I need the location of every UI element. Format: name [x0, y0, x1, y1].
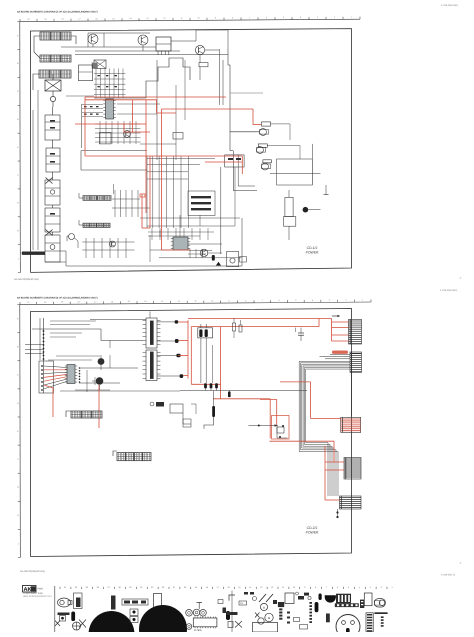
pcb cross mark 2	[79, 620, 86, 628]
svg-text:J: J	[18, 257, 19, 260]
svg-text:4: 4	[359, 586, 360, 589]
svg-text:28: 28	[97, 586, 99, 589]
transformer T601	[45, 74, 61, 91]
wire CN652 down	[351, 372, 353, 416]
red top rail and drop	[188, 319, 332, 439]
section 1 main border	[31, 29, 352, 273]
svg-text:10: 10	[293, 586, 295, 589]
red box mid	[140, 194, 145, 197]
pin connector CN654	[344, 458, 361, 480]
svg-text:POWER: POWER	[306, 251, 319, 255]
svg-text:CD-2/2: CD-2/2	[307, 526, 318, 530]
svg-text:16: 16	[227, 586, 229, 589]
box top lower cluster	[225, 155, 244, 167]
red box around cluster	[272, 416, 290, 440]
right cluster outlines	[230, 124, 329, 195]
dark box	[92, 63, 98, 69]
svg-text:SA-AK240(GN,GC,GS): SA-AK240(GN,GC,GS)	[14, 278, 39, 281]
section 2 main border	[31, 309, 352, 557]
svg-text:21: 21	[173, 586, 175, 589]
pcb diag jumpers	[259, 594, 273, 602]
label CD-2/2 POWER	[306, 526, 319, 535]
resistor block rows	[188, 191, 215, 216]
lamp PL601	[50, 91, 55, 107]
box Q655 Q656	[198, 324, 213, 338]
IC IC651 gray	[65, 365, 77, 384]
pcb striped block	[336, 594, 351, 604]
svg-text:8: 8	[315, 586, 316, 589]
pcb small part r3	[298, 596, 304, 600]
svg-text:7: 7	[326, 586, 327, 589]
wire CN601 leads	[33, 36, 76, 90]
connector CN604 hatched	[79, 193, 111, 200]
svg-text:29: 29	[86, 586, 88, 589]
transistor Q652 dark	[92, 377, 103, 390]
left ladder block 3	[45, 180, 60, 205]
section 3 logo AK	[23, 586, 44, 594]
connector CN657 hatched	[66, 411, 102, 418]
svg-text:PWB: PWB	[38, 588, 44, 591]
svg-text:+: +	[460, 561, 462, 565]
wire right drop	[200, 49, 223, 105]
pcb small boxes pair	[130, 609, 138, 623]
pcb pad column dashed	[309, 602, 312, 623]
transistor cluster under bundle	[277, 425, 288, 438]
svg-text:SA BOARD SCHEMATIC DIAGRAM (2: SA BOARD SCHEMATIC DIAGRAM (2 OF 2) (CD1…	[17, 296, 98, 299]
pcb pad column small	[278, 602, 284, 620]
connector CN601 hatched	[40, 32, 71, 40]
relay box K601	[94, 60, 106, 69]
wire center column	[66, 60, 185, 160]
section 2 part number top-right	[440, 289, 457, 292]
pcb dashed col right	[381, 616, 384, 626]
svg-text:G: G	[17, 202, 19, 205]
pin connector CN655	[340, 496, 362, 509]
wire into regulator Q611	[230, 131, 259, 133]
svg-text:4-239-056-03(2): 4-239-056-03(2)	[440, 289, 457, 292]
pcb letter circle B2	[258, 618, 264, 624]
cap pills on rail	[204, 383, 218, 390]
pcb label box	[239, 601, 247, 605]
cluster wires right of IC651	[75, 340, 138, 392]
label CD-1/2 POWER	[306, 246, 319, 255]
mesh under IC602	[95, 121, 141, 144]
pill RB7 black	[157, 354, 181, 357]
bowtie mark 2	[46, 230, 53, 236]
wide rail s2	[60, 390, 307, 393]
wire bottom-left bus	[45, 251, 130, 266]
section 3 part number top-right	[441, 561, 462, 577]
pcb slotted bar	[335, 603, 359, 607]
box B1	[100, 132, 112, 144]
resistor R610	[199, 63, 208, 67]
extra rows top-left s2	[48, 321, 100, 360]
pcb IC footprint	[186, 617, 217, 633]
black pin stubs left of CN652	[320, 354, 351, 359]
section 3 left border	[54, 586, 56, 632]
pcb pill v1	[71, 612, 75, 622]
svg-text:30: 30	[75, 586, 77, 589]
pcb pill v3	[226, 611, 230, 620]
wire top bundle	[61, 30, 228, 55]
section 3 ruler	[60, 586, 393, 589]
left ladder block 4	[45, 208, 60, 232]
junction dot column right of IC651	[79, 367, 81, 383]
red vertical drop Q652	[44, 385, 99, 428]
svg-text:14: 14	[249, 586, 251, 589]
pcb pill v4	[315, 602, 319, 612]
svg-text:5: 5	[348, 586, 349, 589]
svg-text:CD-1/2: CD-1/2	[307, 246, 318, 250]
svg-text:27: 27	[108, 586, 110, 589]
section 2 footer text	[20, 570, 45, 573]
pcb box cluster right1	[227, 591, 243, 633]
svg-text:J: J	[18, 542, 19, 545]
svg-text:G: G	[17, 486, 19, 489]
right boundary step	[228, 49, 230, 151]
svg-text:B: B	[268, 616, 270, 620]
fuse F601 black	[20, 252, 45, 255]
pcb letter circles	[186, 602, 207, 616]
connector CN602 hatched	[40, 55, 71, 62]
section 1 title	[17, 10, 98, 13]
pcb big cap C2	[139, 605, 187, 637]
pill RB8 black	[157, 374, 183, 378]
bottom left mesh	[82, 238, 134, 258]
pcb tall rect	[154, 594, 162, 609]
IC box IC653	[143, 350, 161, 381]
regulator Q611	[260, 129, 269, 136]
lower ladder left	[147, 156, 215, 228]
pin connector CN651	[349, 319, 362, 344]
svg-text:B: B	[263, 607, 265, 610]
pin connector CN652	[350, 352, 362, 372]
transistor Q614	[200, 249, 208, 257]
svg-text:6: 6	[337, 586, 338, 589]
transistor Q651 dark	[98, 355, 105, 370]
pcb black bar h	[58, 613, 70, 616]
red stubs into CN651	[332, 322, 349, 341]
red net lower right s2	[260, 382, 344, 500]
capacitor sym top right	[296, 328, 305, 341]
regulator Q612	[257, 147, 266, 154]
pcb cross mark 1	[55, 621, 60, 627]
section 2 left ruler	[17, 305, 20, 558]
svg-text:11: 11	[282, 586, 284, 589]
section 1 top ruler	[20, 16, 360, 22]
svg-text:POWER: POWER	[306, 531, 319, 535]
pcb box with dot	[60, 616, 66, 622]
wire bundle CN652 to left	[299, 361, 350, 496]
pin connector CN653 red	[341, 417, 361, 432]
svg-text:24: 24	[140, 586, 142, 589]
regulator pill P2	[258, 144, 267, 147]
svg-text:19: 19	[195, 586, 197, 589]
pcb big circle outline	[336, 615, 360, 637]
left ladder block 5	[45, 235, 60, 262]
IC IC603 gray	[171, 237, 190, 250]
verticals from Q-box to rail	[201, 338, 213, 383]
svg-text:+: +	[460, 276, 462, 280]
pill RB5 black	[157, 320, 178, 323]
wire with dot to cluster	[248, 424, 277, 426]
pcb tall rect right	[364, 593, 372, 606]
section 1 page number	[460, 276, 462, 280]
red bus collecting pills	[178, 320, 188, 378]
section 2 title	[17, 296, 98, 299]
section 2 top ruler	[20, 298, 371, 304]
pcb semicircle D	[325, 595, 336, 602]
transistor Q615	[109, 241, 115, 247]
svg-text:SA-AK240(GN,GC,GS): SA-AK240(GN,GC,GS)	[20, 570, 45, 573]
pcb jumper bar	[122, 599, 148, 605]
pcb L bracket	[229, 595, 235, 601]
left ladder block 1	[45, 107, 60, 140]
box around red mid-left	[81, 151, 147, 170]
svg-text:22: 22	[162, 586, 164, 589]
box B2	[173, 132, 183, 139]
lower comp boxes	[130, 218, 247, 267]
svg-text:23: 23	[151, 586, 153, 589]
wire fan to IC651	[44, 366, 67, 389]
red wire net section1	[75, 97, 261, 250]
IC IC601 box	[156, 37, 171, 55]
svg-text:2: 2	[381, 586, 382, 589]
wire top step s2	[32, 329, 143, 340]
IC box IC652	[143, 312, 161, 349]
left ladder block 2	[46, 148, 60, 172]
svg-text:12: 12	[271, 586, 273, 589]
mesh above IC603	[148, 228, 214, 258]
section 1 left ruler	[17, 22, 20, 273]
lower mesh	[140, 167, 240, 254]
pcb black bar v2	[111, 596, 116, 610]
pill RB6 black	[157, 339, 179, 343]
svg-text:COMPONENT SIDE: COMPONENT SIDE	[23, 592, 43, 595]
svg-text:25: 25	[129, 586, 131, 589]
regulator pill P1	[262, 122, 271, 126]
box left s2	[39, 361, 54, 393]
box D601	[79, 65, 93, 81]
staircase outline	[94, 58, 190, 98]
pcb striped bit right	[360, 600, 364, 608]
svg-text:26: 26	[118, 586, 120, 589]
resistor pair top mid	[233, 318, 243, 338]
pcb bar h right	[374, 612, 387, 614]
transistor Q603	[195, 45, 204, 54]
pcb big cap C1	[89, 611, 135, 637]
pcb key part	[374, 599, 385, 607]
svg-text:17: 17	[217, 586, 219, 589]
mid cluster left of ladder	[112, 184, 150, 217]
svg-text:SA BOARD SCHEMATIC DIAGRAM (1: SA BOARD SCHEMATIC DIAGRAM (1 OF 2) (CD1…	[17, 10, 98, 13]
red bar at CN652	[332, 351, 348, 354]
wire top-left to IC652	[90, 319, 146, 321]
svg-text:4-239-056-11: 4-239-056-11	[441, 574, 456, 577]
svg-text:4-239-056-03(1): 4-239-056-03(1)	[441, 4, 458, 7]
pcb letter circle B3	[265, 613, 273, 621]
pcb target circle	[73, 622, 81, 630]
comp below rail 2	[228, 391, 231, 398]
svg-text:1: 1	[391, 586, 392, 589]
svg-text:13: 13	[260, 586, 262, 589]
transistor Q601	[88, 34, 98, 44]
svg-text:9: 9	[304, 586, 305, 589]
pcb rect outline r2	[285, 593, 294, 604]
comp cluster right of CN657	[150, 402, 196, 427]
pcb filler small parts mid	[218, 592, 322, 629]
junction dots below CN655	[336, 509, 338, 518]
connector CN658 hatched	[113, 451, 151, 461]
dense mesh block	[94, 69, 126, 99]
regulator pill P3	[263, 160, 272, 163]
section 1 part number top-right	[441, 4, 458, 7]
transistor Q602	[138, 35, 148, 45]
connector CN603 hatched	[39, 70, 71, 78]
svg-text:31: 31	[64, 586, 66, 589]
pcb bar v5	[326, 614, 330, 623]
svg-text:20: 20	[184, 586, 186, 589]
pcb letter circle B1	[260, 603, 267, 610]
regulator Q613	[262, 163, 271, 170]
left bus s2	[25, 318, 44, 393]
section 1 footer text	[14, 278, 39, 281]
bowtie mark 1	[46, 178, 53, 184]
svg-text:(SEE SCREW/SCREW TOE.): (SEE SCREW/SCREW TOE.)	[23, 595, 52, 598]
pcb rect part with bar	[74, 593, 83, 609]
svg-text:15: 15	[238, 586, 240, 589]
vert component column	[284, 190, 321, 240]
transistor Q604	[124, 131, 131, 138]
svg-text:3: 3	[370, 586, 371, 589]
pcb oval part	[58, 598, 73, 607]
IC IC602 gray	[103, 99, 115, 119]
gray line right	[230, 92, 263, 94]
comp below rail	[204, 391, 215, 429]
pcb ladder pill bottom	[366, 613, 373, 632]
svg-text:18: 18	[206, 586, 208, 589]
transistor Q616	[67, 234, 78, 249]
arrow at CN651 top	[332, 315, 340, 318]
wire left ladder spine	[33, 90, 53, 250]
left comp rows of IC602	[82, 104, 104, 148]
connector CN605 hatched	[79, 220, 110, 227]
section 3 text lines	[23, 592, 52, 598]
pcb rounded box bottom	[253, 623, 278, 633]
